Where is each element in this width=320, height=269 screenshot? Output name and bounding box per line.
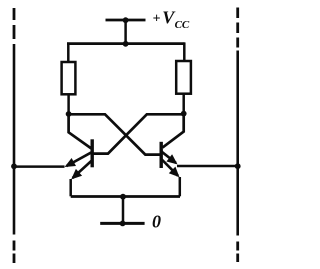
transistor VT1 emitter 1 (to left bit line) <box>66 152 91 166</box>
wire: R1 to left collector node <box>67 94 70 114</box>
resistor R1 <box>62 62 76 94</box>
0 bus bar <box>100 222 144 225</box>
transistor VT2 emitter 1 arrowhead <box>166 154 177 164</box>
bit line right (dashed bottom) <box>236 242 239 263</box>
transistor VT2 base bar <box>159 142 162 168</box>
node: +Vcc terminal junction <box>123 17 129 23</box>
+Vcc terminal bar <box>106 19 146 22</box>
bit line left (solid) <box>13 44 16 235</box>
svg-text:+: + <box>153 12 161 27</box>
transistor VT2 emitter 2 (to word line) <box>162 160 178 176</box>
svg-text:CC: CC <box>175 19 190 31</box>
transistor VT1 emitter 2 (to word line) <box>73 161 92 179</box>
svg-text:0: 0 <box>152 212 161 232</box>
wire: VT2 emitter 1 to right bit line <box>177 165 238 168</box>
node: right collector <box>181 111 187 117</box>
bit line left (dashed bottom) <box>13 241 16 264</box>
wire: Vcc rail <box>67 42 185 45</box>
transistor VT1 base bar <box>90 139 93 167</box>
wire: rail to R1 <box>67 42 70 62</box>
bit line left (dashed top) <box>13 8 16 39</box>
bit line right (dashed top) <box>236 8 239 48</box>
wire: VT2 emitter 2 down <box>179 177 182 196</box>
wire: VT1 emitter 2 down <box>69 179 72 196</box>
wire: right collector node to base of VT1 (cross-coupling) <box>93 114 184 153</box>
transistor VT1 emitter 1 arrowhead <box>65 158 76 167</box>
transistor VT2 emitter 1 (to right bit line) <box>162 152 176 163</box>
node: 0 bus junction <box>120 221 126 227</box>
transistor VT2 collector lead <box>163 114 184 148</box>
resistor R2 <box>176 61 191 94</box>
bit line right (solid) <box>236 51 239 236</box>
wire: rail to 0 bus <box>122 197 125 224</box>
wire: emitter rail <box>71 195 180 198</box>
transistor VT1 emitter 2 arrowhead <box>71 169 82 180</box>
wire: R2 to right collector node <box>182 94 185 114</box>
wire: +Vcc terminal to rail <box>124 20 127 44</box>
transistor VT1 collector lead <box>69 114 92 149</box>
wire: VT1 emitter 1 to left bit line <box>14 165 65 168</box>
node: right bit line junction <box>235 163 241 169</box>
node: emitter rail center <box>120 194 126 200</box>
wire: rail to R2 <box>183 42 186 61</box>
transistor VT2 emitter 2 arrowhead <box>169 167 180 178</box>
wire: left collector node to base of VT2 (cross-coupling) <box>69 114 161 154</box>
label +Vcc <box>153 8 190 32</box>
node: left collector <box>66 111 72 117</box>
node: left bit line junction <box>11 163 17 169</box>
node: Vcc rail junction <box>123 41 129 47</box>
